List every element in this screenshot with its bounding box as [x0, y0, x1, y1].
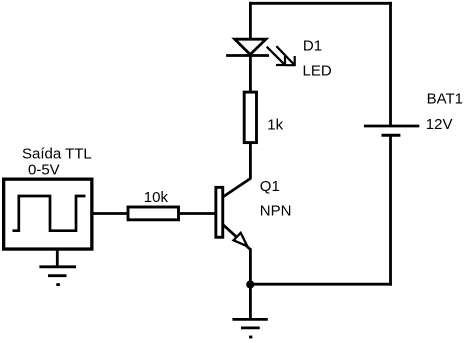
svg-text:12V: 12V	[426, 116, 453, 133]
svg-text:Saída TTL: Saída TTL	[22, 146, 92, 163]
wire: LED cathode to resistor R (1k)	[249, 55, 252, 91]
wire: 10k to base	[178, 212, 216, 215]
battery BAT1 positive plate	[364, 125, 419, 128]
resistor 1k body	[244, 92, 256, 143]
ground (TTL source) bar 3	[56, 283, 60, 286]
wire: top rail to battery positive	[389, 2, 392, 125]
LED D1 light arrow 1 shaft	[267, 47, 285, 65]
TTL source square wave	[13, 196, 86, 231]
ground (TTL source) bar 2	[48, 274, 67, 277]
transistor Q1 emitter lead	[223, 225, 251, 250]
wire: 1k resistor to collector	[249, 144, 252, 180]
svg-text:NPN: NPN	[260, 202, 292, 219]
TTL source box	[4, 179, 92, 249]
svg-text:0-5V: 0-5V	[28, 162, 60, 179]
svg-text:D1: D1	[303, 37, 322, 54]
svg-text:1k: 1k	[267, 117, 283, 134]
ground (TTL source) bar 1	[39, 265, 76, 268]
wire: TTL source box to ground	[56, 250, 59, 267]
ground (bottom) bar 3	[249, 336, 252, 339]
LED D1 light arrow 1 head	[276, 56, 285, 65]
LED D1 cathode bar	[226, 54, 269, 57]
wire: emitter to junction	[249, 248, 252, 284]
wire: battery negative down to bottom rail	[389, 137, 392, 286]
wire: junction to ground	[249, 283, 252, 319]
LED D1 light arrow 2 head	[286, 56, 295, 65]
svg-text:LED: LED	[303, 62, 332, 79]
wire: LED anode to top rail	[249, 2, 252, 39]
svg-text:BAT1: BAT1	[427, 90, 463, 107]
LED D1 light arrow 2 shaft	[276, 46, 294, 65]
wire: TTL source output to 10k	[91, 212, 129, 215]
transistor Q1 collector lead	[223, 179, 251, 198]
transistor Q1 base bar	[216, 187, 223, 237]
ground (bottom) bar 2	[241, 326, 260, 329]
ground (bottom) bar 1	[232, 318, 267, 321]
svg-text:Q1: Q1	[260, 178, 280, 195]
wire: bottom rail	[249, 283, 392, 286]
LED D1 triangle	[235, 39, 266, 54]
node: emitter junction dot	[246, 280, 254, 288]
battery BAT1 negative plate	[382, 134, 401, 137]
svg-text:10k: 10k	[144, 189, 169, 206]
wire: top rail	[249, 2, 392, 5]
resistor 10k body	[128, 207, 179, 220]
transistor Q1 emitter arrow	[234, 233, 248, 246]
